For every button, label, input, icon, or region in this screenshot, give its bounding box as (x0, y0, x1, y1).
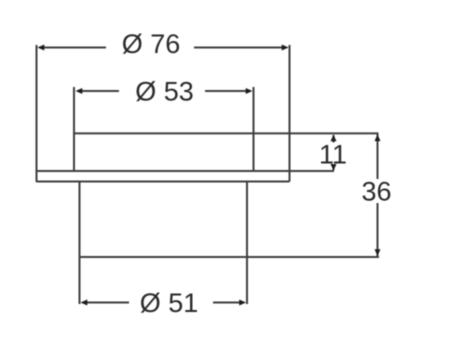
Ø53 dimension line left segment (78, 90, 119, 92)
svg-text:Ø 51: Ø 51 (140, 288, 199, 318)
Ø76 dimension line left segment (39, 47, 106, 49)
Ø53 right arrowhead (246, 88, 253, 94)
Ø51 right arrowhead (239, 300, 246, 306)
Ø51 dimension line right segment (213, 302, 243, 304)
36 dimension line (377, 133, 379, 256)
36 text background mask (362, 179, 391, 203)
body bottom edge + extension to 36 dimension (80, 256, 380, 258)
svg-text:Ø 53: Ø 53 (135, 77, 194, 107)
36 bottom arrowhead (375, 249, 381, 256)
36 top arrowhead (375, 134, 381, 141)
11 text background mask (320, 143, 346, 166)
neck right edge + Ø53 right extension line (253, 87, 255, 171)
Ø51 left arrowhead (81, 300, 88, 306)
Ø53 dimension line right segment (205, 90, 250, 92)
svg-text:Ø 76: Ø 76 (122, 29, 181, 59)
11 bottom arrowhead (331, 164, 337, 171)
svg-text:36: 36 (361, 177, 391, 207)
neck top edge + extension to 36 dimension (74, 132, 379, 134)
11 dimension line (333, 135, 335, 170)
body right edge + Ø51 right extension line (246, 182, 248, 305)
Ø53 left arrowhead (76, 88, 83, 94)
flange right edge + Ø76 right extension line (289, 45, 291, 182)
neck left edge + Ø53 left extension line (73, 87, 75, 171)
Ø76 dimension line right segment (194, 47, 287, 49)
11 top arrowhead (331, 135, 337, 142)
body left edge + Ø51 left extension line (79, 182, 81, 305)
Ø76 right arrowhead (282, 45, 289, 51)
Ø51 dimension line left segment (83, 302, 129, 304)
flange top edge + extension to 11 dimension (37, 170, 335, 172)
Ø76 left arrowhead (38, 45, 45, 51)
flange bottom edge (37, 181, 290, 183)
flange left edge + Ø76 left extension line (36, 45, 38, 182)
svg-text:11: 11 (319, 140, 347, 170)
